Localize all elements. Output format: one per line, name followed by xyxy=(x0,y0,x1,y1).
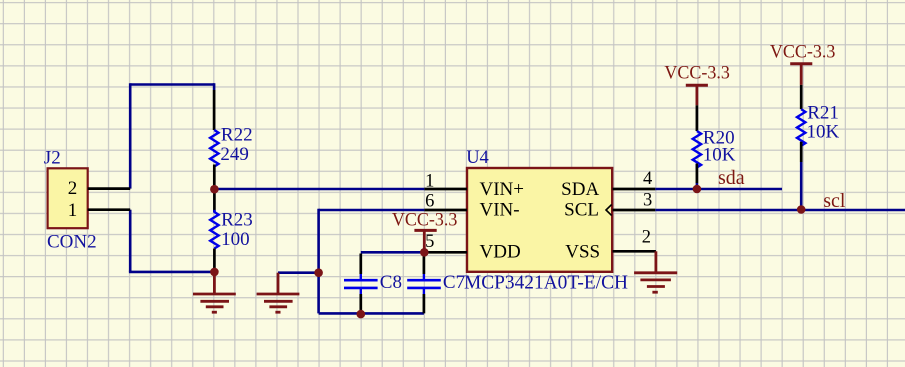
svg-text:1: 1 xyxy=(425,172,434,192)
wire: left vertical from top loop down to J2 pin2 xyxy=(129,83,132,188)
power port VCC-3.3 (R21) xyxy=(790,64,812,85)
wire: ground B link xyxy=(278,271,319,274)
ground symbol B (VIN- rail) xyxy=(257,273,300,313)
junction dot VDD node xyxy=(420,248,429,257)
wire: bottom loop horizontal to R23 bottom junction xyxy=(129,271,215,274)
resistor R20 xyxy=(693,105,701,183)
svg-text:2: 2 xyxy=(642,227,651,247)
svg-text:U4: U4 xyxy=(466,148,489,168)
wire: VIN- vertical down to bottom cap rail xyxy=(317,209,320,314)
svg-text:VIN+: VIN+ xyxy=(480,179,525,200)
junction dot C8 bottom xyxy=(357,310,366,319)
svg-text:R22: R22 xyxy=(221,124,253,145)
clock symbol at pin 3 xyxy=(606,205,612,216)
svg-text:10K: 10K xyxy=(703,145,736,166)
svg-text:C7: C7 xyxy=(443,272,465,293)
svg-text:sda: sda xyxy=(718,167,745,189)
resistor R21 xyxy=(797,85,805,162)
wire: bottom cap rail xyxy=(319,312,424,315)
wire: main net from R22/R23 junction to U4 VIN+ pin xyxy=(214,188,424,191)
svg-text:VDD: VDD xyxy=(480,242,521,263)
svg-text:SCL: SCL xyxy=(564,200,599,221)
U4 pin 3 SCL with clock mark xyxy=(613,209,656,212)
junction dot scl/R21 xyxy=(797,205,806,214)
power port VCC-3.3 (R20) xyxy=(686,85,708,105)
svg-text:CON2: CON2 xyxy=(47,232,97,253)
svg-text:10K: 10K xyxy=(807,121,840,142)
ground symbol under R23 junction xyxy=(193,272,236,312)
resistor R23 xyxy=(210,189,218,272)
svg-text:100: 100 xyxy=(221,229,250,250)
wire: R22 top stub xyxy=(213,83,216,90)
svg-text:VSS: VSS xyxy=(565,242,600,263)
capacitor C8 xyxy=(344,254,378,315)
junction dot R23 bottom xyxy=(210,268,219,277)
wire: R21 bottom to scl junction xyxy=(800,162,803,210)
resistor R22 xyxy=(210,90,218,189)
connector J2 xyxy=(48,168,88,228)
svg-text:R21: R21 xyxy=(807,102,839,123)
U4 pin 1 VIN+ xyxy=(424,188,467,191)
svg-text:2: 2 xyxy=(68,178,78,199)
svg-text:R23: R23 xyxy=(221,210,253,231)
svg-text:VIN-: VIN- xyxy=(480,200,520,221)
svg-text:VCC-3.3: VCC-3.3 xyxy=(664,63,730,83)
junction dot sda/R20 xyxy=(693,185,702,194)
J2 pin 2 xyxy=(88,187,131,190)
svg-text:VCC-3.3: VCC-3.3 xyxy=(392,210,458,230)
svg-text:VCC-3.3: VCC-3.3 xyxy=(770,42,836,62)
wire: R20 bottom stub to sda junction xyxy=(696,183,699,189)
wire: left vertical from J2 pin1 down to bottom loop xyxy=(129,210,132,272)
wire: top loop horizontal (J2.2 to R22 top) xyxy=(130,83,214,86)
capacitor C7 xyxy=(407,254,441,314)
svg-text:1: 1 xyxy=(68,200,78,221)
junction dot R22/R23/VIN+ xyxy=(210,185,219,194)
svg-text:SDA: SDA xyxy=(561,179,599,200)
svg-text:6: 6 xyxy=(425,192,434,212)
svg-text:3: 3 xyxy=(643,191,652,211)
svg-text:249: 249 xyxy=(220,144,249,165)
power port VCC-3.3 (VDD) xyxy=(414,230,436,252)
wire: cap top rail (C8 top to VDD node) xyxy=(361,251,425,254)
U4 pin 2 VSS xyxy=(613,250,656,253)
ground symbol under VSS xyxy=(634,251,677,292)
U4 pin 4 SDA xyxy=(613,188,656,191)
junction dot ground B on VIN- rail xyxy=(314,268,323,277)
U4 pin 6 VIN- xyxy=(424,209,467,212)
wire: scl net xyxy=(655,209,905,212)
svg-text:J2: J2 xyxy=(44,147,61,168)
svg-text:C8: C8 xyxy=(380,272,402,293)
svg-text:scl: scl xyxy=(823,190,846,212)
wire: sda net xyxy=(655,188,782,191)
U4 pin 5 VDD xyxy=(424,251,467,254)
J2 pin 1 xyxy=(88,208,131,211)
svg-text:MCP3421A0T-E/CH: MCP3421A0T-E/CH xyxy=(464,273,628,294)
wire: VIN- horizontal xyxy=(319,209,425,212)
svg-text:4: 4 xyxy=(643,169,652,189)
op IC U4 MCP3421 xyxy=(467,168,612,272)
